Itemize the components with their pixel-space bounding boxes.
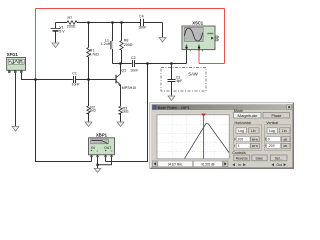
wire node A to C1 [36,79,73,81]
svg-text:dB: dB [283,137,287,141]
wire red net top segment [36,8,225,10]
svg-text:200: 200 [238,138,244,142]
function generator XFG1 [7,52,26,73]
svg-text:Phase: Phase [272,114,282,118]
response curve [185,123,230,158]
svg-text:F: F [234,138,236,142]
svg-text:Save: Save [256,156,264,160]
wire XFG1 common to ground [15,73,17,127]
svg-text:Q1: Q1 [121,68,126,72]
svg-text:Out: Out [276,163,282,167]
log lin buttons [236,128,247,133]
svg-text:C1: C1 [72,72,77,76]
capacitor C1 [72,72,81,87]
resistor R8 [120,23,133,64]
svg-text:IN: IN [91,146,95,150]
node A input net junction [34,78,36,80]
svg-text:10nF: 10nF [72,83,81,87]
grid dotted [158,115,229,158]
wire red net to scope B [198,51,200,64]
wire C1 to Q1 base [76,79,116,81]
ground under C4 [159,38,166,43]
wire XBP1 OUT+ to output node [105,157,107,162]
junction base-R1-R2 [87,78,89,80]
svg-text:I: I [234,144,235,148]
wire V1 to R7 [56,22,68,24]
svg-text:In: In [238,163,241,167]
resistor R2 [87,80,96,122]
wire red net bottom segment [199,63,225,65]
svg-text:OUT: OUT [104,146,111,150]
svg-text:1.2uH: 1.2uH [101,42,111,46]
svg-text:Horizontal: Horizontal [235,121,251,125]
red cursor [203,115,205,159]
reverse save set buttons [234,155,250,161]
svg-text:dB: dB [283,144,287,148]
oscilloscope XSC1 [182,20,219,51]
svg-text:Magnitude: Magnitude [238,114,258,118]
svg-text:R7: R7 [68,16,73,20]
junction rail-R8-C4 [120,21,122,23]
in out port arrows [232,163,235,166]
svg-text:Log: Log [269,129,275,133]
capacitor C4 [138,14,147,29]
graph area [157,115,229,159]
svg-text:200Ω: 200Ω [67,25,76,29]
svg-text:94.927 MHz: 94.927 MHz [168,162,183,166]
svg-text:XBP1: XBP1 [96,133,108,138]
ground under C3 [168,96,175,101]
junction output-XBP1 [146,62,148,64]
wire XBP1 IN- to ground [97,157,99,168]
junction collector node [119,62,121,64]
SAW filter dashed box [161,68,206,92]
close button [287,105,292,110]
svg-text:XSC1: XSC1 [192,20,204,25]
svg-text:C4: C4 [139,14,144,18]
wire XFG1 output to node A [22,73,36,80]
wire tank to C2 [113,63,132,65]
junction rail-L1 [111,21,113,23]
title bar [152,105,292,111]
svg-text:SAW: SAW [188,72,197,77]
vertical group [265,125,291,151]
capacitor C2 [130,56,139,73]
wire output to C3 [171,64,173,80]
junction XBP1 ground net [96,164,98,166]
svg-text:1kΩ: 1kΩ [122,110,129,114]
svg-text:Set...: Set... [275,156,283,160]
resistor R3 [119,106,129,121]
svg-text:1kΩ: 1kΩ [89,109,96,113]
resistor R7 [67,16,77,28]
battery V1 [51,23,66,43]
phase button [263,113,290,119]
svg-text:Controls: Controls [232,151,246,155]
svg-text:MPSH10: MPSH10 [122,86,136,90]
svg-text:C2: C2 [131,56,136,60]
svg-text:XFG1: XFG1 [7,52,19,57]
svg-text:Log: Log [238,129,244,133]
window frame [150,103,294,169]
svg-text:MHz: MHz [252,137,259,141]
svg-text:-200: -200 [268,144,275,148]
svg-text:5 V: 5 V [59,30,65,34]
ground under V1 [52,43,59,48]
junction output-C3 [170,62,172,64]
svg-text:Lin: Lin [251,129,256,133]
svg-text:10nF: 10nF [130,69,139,73]
svg-text:0: 0 [268,138,270,142]
svg-text:Bode Plotter - XBP1: Bode Plotter - XBP1 [158,106,190,110]
wire XBP1 IN+ to input node [36,80,92,162]
svg-text:Vertical: Vertical [266,121,278,125]
magnitude button [234,113,262,119]
svg-text:Lin: Lin [282,129,287,133]
readout bar [152,161,157,167]
ground under XFG1 [12,127,19,132]
svg-text:MHz: MHz [252,144,259,148]
transistor Q1 MPSH10 [116,64,136,107]
ground under XBP1 [94,168,101,172]
svg-text:Reverse: Reverse [236,156,248,160]
capacitor C3 [168,76,183,96]
wire scope A drop [186,51,188,64]
wire output to XBP1 OUT [106,64,148,162]
svg-text:10nF: 10nF [138,26,147,30]
horizontal group [234,125,262,151]
wire C2 to scope A node [135,63,186,65]
wire R7 to C4 rail [77,22,140,24]
ground under R2 [85,122,92,127]
svg-text:4.7kΩ: 4.7kΩ [89,53,99,57]
wire red net left segment [35,9,37,80]
wire XBP1 OUT- to ground node [98,157,112,165]
svg-text:200Ω: 200Ω [124,43,133,47]
Bode Plotter window XBP1 [150,103,294,169]
wire red net right segment [224,9,226,64]
bode plotter icon XBP1 [89,133,115,158]
junction rail-R1 [87,21,89,23]
inductor L1 [101,23,113,64]
svg-text:6pF: 6pF [177,79,183,83]
wire C4 right lead [144,22,163,24]
wire C4 to ground [162,23,164,38]
ground under R3 [117,122,124,127]
svg-text:1: 1 [238,144,240,148]
resistor R1 [87,23,99,80]
svg-text:-91.502 dB: -91.502 dB [201,162,215,166]
svg-text:I: I [265,144,266,148]
